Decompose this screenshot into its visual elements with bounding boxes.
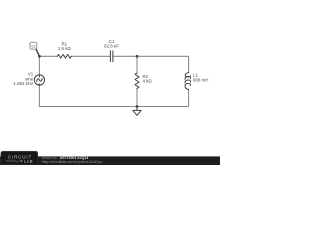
watermark bar: [0, 156, 220, 165]
svg-text:62.8 nF: 62.8 nF: [104, 44, 119, 49]
wire C1 to top-right corner: [113, 55, 189, 57]
ground: [133, 107, 141, 116]
wire top-left to R1: [39, 55, 57, 57]
wire right vertical: [188, 56, 190, 72]
resistor R2: [135, 73, 139, 89]
resistor R1: [57, 54, 71, 58]
svg-text:1.592 kHz: 1.592 kHz: [13, 81, 33, 86]
voltage source V1: [34, 75, 44, 85]
wire bottom: [39, 106, 188, 108]
wire R1 to C1: [71, 55, 110, 57]
watermark logo badge: [1, 151, 38, 164]
svg-text:ahmed ar : AST10001 A2Q14: ahmed ar : AST10001 A2Q14: [42, 156, 88, 160]
inductor L1: [185, 73, 191, 90]
wire R2 branch vertical: [136, 56, 138, 73]
svg-text:LAB: LAB: [24, 159, 33, 164]
node C junction ground: [136, 105, 139, 108]
svg-text:1.6 kΩ: 1.6 kΩ: [58, 46, 72, 51]
node B junction C1-R2: [136, 55, 139, 58]
svg-text:http://circuitlab.com/c/pdcet1: http://circuitlab.com/c/pdcet12v62yu: [42, 160, 102, 164]
svg-text:4 kΩ: 4 kΩ: [143, 79, 153, 84]
svg-text:800 mH: 800 mH: [193, 77, 208, 82]
capacitor C1: [110, 51, 113, 62]
node v1 flag box: [30, 42, 37, 49]
wire left vertical (source leads): [38, 56, 40, 75]
node A junction top-left: [38, 55, 41, 58]
node v1 flag pointer: [36, 49, 39, 56]
